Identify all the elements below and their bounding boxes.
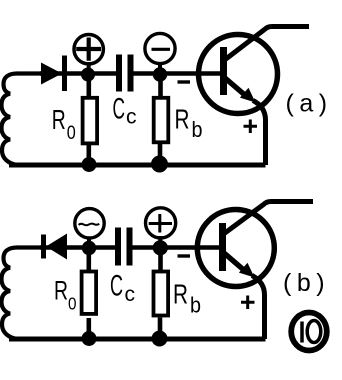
source circle with wavy minus (b) [75, 209, 104, 238]
svg-text:0: 0 [68, 294, 77, 314]
svg-text:C: C [113, 93, 126, 126]
capacitor Cc plates (a) [119, 55, 131, 92]
diode D (a), pointing right [41, 63, 62, 85]
node junction dot 3 (a, below R0) [82, 157, 97, 172]
wire lead R0 bottom (b) [87, 318, 92, 339]
svg-text:b: b [192, 117, 203, 142]
resistor R0 body (b) [82, 272, 97, 314]
stem from plus circle to node (b) [158, 236, 162, 248]
svg-text:c: c [126, 106, 137, 129]
transistor Q (b): collector wire to top right [224, 202, 314, 235]
transistor Q (a): base bar [220, 47, 227, 95]
node junction dot 4 (a, below Rb) [151, 156, 168, 173]
resistor Rb body (a) [154, 98, 169, 143]
wire lead R0 bottom (a) [87, 145, 92, 166]
stem from source circle to node (b) [87, 239, 91, 248]
svg-text:R: R [52, 104, 66, 135]
wire bottom rail (a) [9, 163, 266, 168]
resistor Rb body (b) [154, 272, 169, 316]
source circle with plus (a) [74, 35, 103, 64]
node junction dot 1 (a) [81, 68, 95, 82]
wire lead Rb top (b) [158, 248, 163, 270]
transistor Q (b): base bar [219, 223, 226, 271]
diode D (b), pointing left [46, 234, 67, 260]
source circle with minus (a) [145, 33, 175, 63]
capacitor Cc plates (b) [118, 228, 130, 266]
plus polarity label near emitter (a) [244, 120, 258, 134]
minus sign inside circle (a) [152, 48, 171, 51]
transistor Q (b): emitter line [224, 253, 245, 271]
wire top rail right (b): capacitor to transistor base [133, 245, 223, 250]
transistor Q (a): circle [199, 35, 278, 114]
svg-text:0: 0 [67, 123, 76, 144]
node junction dot 4 (b, below Rb) [152, 331, 168, 347]
svg-text:(b): (b) [283, 269, 330, 297]
plus sign inside circle (a) [76, 38, 101, 61]
wire lead Rb bottom (a) [158, 144, 163, 166]
svg-text:c: c [125, 283, 136, 306]
stem from minus circle to node (a) [158, 62, 162, 74]
wire lead R0 top (a) [87, 74, 92, 96]
digit 1 of figure number [300, 322, 304, 343]
figure number 10 in circle [291, 313, 327, 351]
wire emitter to bottom rail (a) [253, 101, 266, 166]
minus polarity label near base (b) [178, 254, 191, 257]
source circle with plus (b) [146, 208, 176, 238]
transistor Q (a): emitter line [225, 78, 246, 96]
wire lead Rb bottom (b) [158, 318, 163, 340]
transistor Q (b): circle [197, 210, 274, 287]
svg-text:R: R [175, 104, 190, 135]
resistor R0 body (a) [83, 98, 98, 144]
transistor Q (b): emitter arrowhead [239, 263, 255, 278]
plus polarity label near emitter (b) [241, 296, 255, 310]
wire bottom rail (b) [9, 337, 266, 342]
svg-text:R: R [173, 279, 188, 310]
wire emitter to bottom rail (b) [252, 276, 265, 340]
wire top rail left (b): diode to capacitor [40, 245, 116, 250]
wire top rail left (a): diode to capacitor [40, 71, 116, 76]
wire top rail right (a): capacitor to transistor base [134, 71, 223, 76]
wire lead Rb top (a) [158, 74, 163, 96]
minus polarity label near base (a) [178, 80, 191, 83]
node junction dot 2 (a) [153, 67, 167, 81]
svg-text:(a): (a) [286, 90, 333, 118]
transistor Q (a): collector wire to top right [225, 27, 310, 61]
node junction dot 3 (b, below R0) [82, 331, 97, 346]
svg-text:C: C [110, 270, 123, 303]
node junction dot 1 (b) [82, 241, 96, 255]
transistor Q (a): emitter arrowhead [240, 88, 256, 103]
svg-text:R: R [54, 276, 68, 306]
inductor L (coil, left side, circuit b) [2, 248, 45, 340]
svg-text:b: b [190, 293, 201, 318]
node junction dot 2 (b) [153, 240, 168, 255]
plus sign inside circle (b) [149, 214, 172, 233]
wavy minus sign inside circle (b) [79, 224, 100, 226]
stem from plus circle to node (a) [87, 62, 91, 74]
digit 0 of figure number [307, 321, 321, 343]
wire lead R0 top (b) [87, 248, 92, 270]
inductor L (coil, left side, circuit a) [2, 74, 45, 166]
